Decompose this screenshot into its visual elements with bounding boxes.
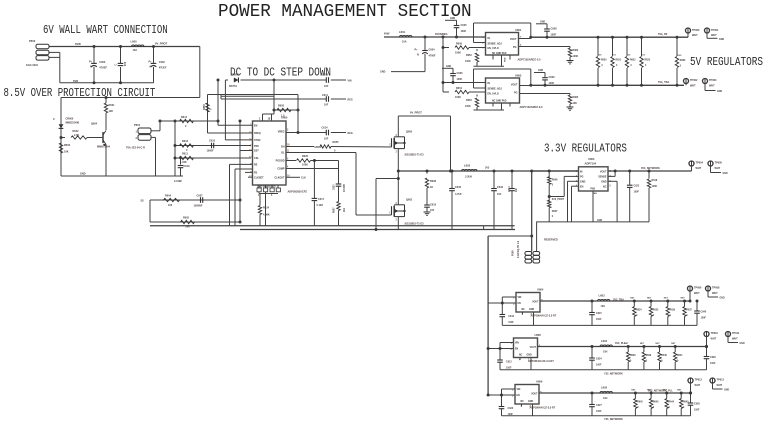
svg-text:10H: 10H — [603, 351, 608, 354]
svg-text:SI2318DS-T1-E3: SI2318DS-T1-E3 — [405, 223, 425, 226]
svg-text:10F: 10F — [324, 138, 329, 141]
svg-text:R682: R682 — [680, 60, 686, 62]
svg-text:ADP1864AUJZ-3.3-R7: ADP1864AUJZ-3.3-R7 — [530, 406, 556, 409]
svg-text:C611: C611 — [322, 94, 328, 97]
svg-text:WHT: WHT — [690, 85, 696, 88]
svg-text:3V3_TBA: 3V3_TBA — [613, 299, 624, 302]
svg-text:VIN: VIN — [517, 389, 521, 391]
svg-text:R614: R614 — [181, 116, 188, 119]
svg-text:POWER MANAGEMENT SECTION: POWER MANAGEMENT SECTION — [218, 2, 472, 22]
svg-text:5V1: 5V1 — [612, 55, 617, 57]
svg-text:WHT: WHT — [694, 292, 700, 295]
svg-text:R641: R641 — [677, 354, 683, 357]
svg-text:R643: R643 — [653, 401, 659, 404]
svg-text:Y33_NETWORK: Y33_NETWORK — [604, 418, 623, 421]
svg-text:10F: 10F — [497, 193, 502, 196]
svg-text:0: 0 — [670, 315, 672, 317]
svg-text:R601: R601 — [456, 87, 463, 90]
svg-text:C640: C640 — [701, 311, 707, 314]
svg-text:C606: C606 — [457, 72, 464, 75]
svg-text:C610: C610 — [184, 165, 191, 168]
svg-text:NET: NET — [640, 343, 645, 345]
svg-text:Y33_NETWORK: Y33_NETWORK — [604, 372, 623, 375]
svg-text:2: 2 — [136, 137, 138, 140]
svg-text:P601: P601 — [134, 123, 141, 127]
svg-text:C620: C620 — [508, 407, 514, 410]
svg-text:5VA_TBA: 5VA_TBA — [658, 81, 669, 84]
svg-text:TRK: TRK — [254, 145, 259, 148]
svg-text:VIN: VIN — [518, 297, 522, 299]
svg-text:100F: 100F — [710, 362, 716, 365]
svg-text:Q602: Q602 — [406, 199, 413, 202]
svg-text:C612: C612 — [506, 360, 512, 363]
svg-text:IN: IN — [488, 37, 491, 40]
svg-text:0: 0 — [683, 407, 685, 409]
svg-text:SYNC: SYNC — [254, 139, 261, 142]
svg-text:P+: P+ — [149, 60, 153, 63]
svg-text:100K: 100K — [455, 96, 461, 99]
svg-text:2: 2 — [396, 220, 398, 222]
svg-text:PAD: PAD — [504, 57, 507, 62]
svg-text:0: 0 — [653, 315, 655, 317]
svg-text:VIN: VIN — [515, 343, 519, 345]
svg-text:CSL: CSL — [254, 157, 259, 160]
svg-text:1000NF: 1000NF — [194, 205, 203, 208]
svg-text:0: 0 — [631, 65, 633, 67]
svg-text:VOUT: VOUT — [532, 302, 539, 304]
svg-text:CR600: CR600 — [66, 118, 74, 121]
svg-text:4700F: 4700F — [429, 55, 437, 58]
svg-text:U600: U600 — [281, 116, 288, 120]
svg-text:ADP1864AUJZ-3.3-R7: ADP1864AUJZ-3.3-R7 — [528, 360, 554, 363]
svg-text:GND: GND — [601, 181, 607, 184]
svg-text:0: 0 — [677, 361, 679, 363]
svg-text:ADP7104: ADP7104 — [585, 161, 597, 165]
svg-text:HDRV: HDRV — [315, 146, 322, 149]
svg-text:NC: NC — [521, 401, 525, 403]
svg-text:CLKSET: CLKSET — [254, 176, 264, 179]
svg-text:GND: GND — [719, 39, 724, 41]
svg-text:R616: R616 — [182, 140, 189, 143]
svg-text:C630: C630 — [455, 186, 462, 189]
svg-text:PG: PG — [580, 176, 584, 179]
svg-text:RESERVED: RESERVED — [544, 238, 558, 241]
svg-text:PAD: PAD — [591, 188, 596, 191]
svg-text:100F: 100F — [596, 364, 602, 367]
svg-text:100F: 100F — [457, 78, 463, 81]
svg-text:100K: 100K — [455, 52, 461, 55]
svg-text:ADP7102ARDZ-9.0: ADP7102ARDZ-9.0 — [520, 105, 543, 109]
svg-text:TP606: TP606 — [694, 287, 702, 290]
svg-text:C634: C634 — [508, 186, 511, 192]
svg-text:REG: REG — [348, 98, 353, 101]
svg-text:R631: R631 — [616, 60, 622, 62]
svg-text:COMP: COMP — [277, 168, 285, 171]
svg-text:R620: R620 — [302, 155, 309, 158]
svg-text:5V2: 5V2 — [627, 55, 632, 57]
svg-text:0: 0 — [637, 407, 639, 409]
svg-text:NET: NET — [631, 390, 636, 392]
svg-text:100F: 100F — [596, 410, 602, 413]
svg-text:R618: R618 — [652, 179, 658, 182]
svg-text:P+: P+ — [415, 49, 419, 52]
svg-text:C632: C632 — [497, 186, 504, 189]
svg-text:ADP7102ARDZ-5.0: ADP7102ARDZ-5.0 — [518, 58, 541, 62]
svg-text:FREQ: FREQ — [254, 132, 261, 135]
svg-text:C607: C607 — [197, 195, 204, 198]
svg-text:GND: GND — [80, 173, 86, 176]
svg-text:R650: R650 — [278, 105, 285, 108]
svg-text:L600: L600 — [131, 39, 138, 43]
svg-text:NET: NET — [671, 343, 676, 345]
svg-text:C628: C628 — [694, 403, 700, 406]
svg-text:0: 0 — [602, 65, 604, 67]
svg-text:100F: 100F — [701, 317, 707, 320]
svg-text:1000F: 1000F — [207, 150, 215, 153]
svg-text:C600: C600 — [99, 61, 106, 64]
svg-text:0.1EF: 0.1EF — [317, 204, 324, 207]
svg-text:3.3UH: 3.3UH — [465, 176, 472, 179]
svg-text:47UEF: 47UEF — [159, 66, 167, 69]
svg-text:DH: DH — [281, 146, 285, 149]
svg-text:NC: NC — [603, 185, 607, 188]
svg-text:5V0: 5V0 — [678, 55, 683, 57]
svg-text:U603: U603 — [588, 157, 595, 161]
svg-text:NET: NET — [630, 298, 635, 300]
svg-text:0: 0 — [636, 315, 638, 317]
svg-text:100K: 100K — [302, 164, 308, 167]
svg-text:EN: EN — [254, 125, 258, 128]
svg-text:DL: DL — [281, 152, 285, 155]
svg-text:0: 0 — [552, 215, 554, 218]
svg-text:R636: R636 — [670, 310, 676, 312]
svg-text:SS: SS — [141, 199, 145, 202]
svg-text:6V_PROT: 6V_PROT — [410, 111, 422, 115]
svg-text:NET: NET — [647, 298, 652, 300]
svg-text:R642: R642 — [637, 401, 643, 404]
svg-text:GND: GND — [717, 91, 722, 93]
svg-text:R605: R605 — [183, 217, 190, 220]
svg-text:VOUT: VOUT — [600, 171, 607, 174]
svg-text:10K: 10K — [573, 102, 578, 105]
svg-text:WHT: WHT — [712, 292, 718, 295]
svg-text:10F: 10F — [324, 85, 329, 88]
svg-text:N: N — [417, 54, 419, 57]
svg-text:100F: 100F — [506, 366, 512, 369]
svg-text:GND: GND — [540, 22, 545, 24]
svg-text:C603: C603 — [322, 74, 329, 77]
svg-text:6V_PROT: 6V_PROT — [155, 41, 168, 45]
svg-text:FB: FB — [254, 172, 257, 175]
svg-text:R683: R683 — [573, 96, 579, 99]
svg-text:NC GND PAD: NC GND PAD — [492, 52, 507, 55]
svg-text:WHT: WHT — [715, 167, 721, 170]
svg-text:NC: NC — [519, 355, 523, 357]
svg-text:C626: C626 — [710, 356, 716, 359]
svg-text:R640: R640 — [661, 354, 667, 357]
svg-text:PG: PG — [513, 46, 517, 49]
svg-text:R652: R652 — [466, 54, 472, 57]
svg-text:WHT: WHT — [732, 338, 738, 341]
svg-text:TP601: TP601 — [711, 29, 719, 32]
svg-text:R638: R638 — [630, 355, 636, 357]
svg-text:TP612: TP612 — [695, 379, 703, 382]
svg-text:C602: C602 — [159, 61, 166, 64]
svg-text:C605: C605 — [461, 24, 468, 27]
svg-text:2: 2 — [396, 152, 398, 154]
svg-text:R637: R637 — [686, 310, 692, 312]
svg-text:L601: L601 — [399, 30, 406, 34]
svg-text:GND: GND — [529, 309, 534, 311]
svg-text:C604: C604 — [429, 49, 436, 52]
svg-text:R602: R602 — [73, 130, 80, 133]
svg-text:10F: 10F — [324, 104, 329, 107]
svg-text:R632: R632 — [630, 60, 636, 62]
svg-text:KLD-1601: KLD-1601 — [26, 63, 39, 67]
svg-text:6V8: 6V8 — [125, 61, 127, 66]
svg-text:100F: 100F — [551, 34, 557, 37]
svg-text:N: N — [150, 66, 152, 69]
svg-text:3V3_NETWORK: 3V3_NETWORK — [641, 167, 660, 170]
svg-text:5VA_RF: 5VA_RF — [658, 33, 668, 36]
svg-text:5: 5 — [610, 186, 612, 188]
svg-text:NET: NET — [624, 343, 629, 345]
svg-text:5V0: 5V0 — [598, 55, 603, 57]
svg-text:C624: C624 — [596, 358, 602, 361]
svg-text:0: 0 — [653, 407, 655, 409]
svg-text:CR602: CR602 — [231, 74, 239, 77]
svg-text:EN: EN — [518, 303, 522, 305]
svg-text:EN: EN — [517, 395, 521, 397]
svg-text:TP605: TP605 — [715, 162, 723, 165]
svg-text:GND: GND — [740, 343, 745, 345]
svg-text:100F: 100F — [508, 321, 514, 324]
svg-text:6VW: 6VW — [75, 42, 81, 46]
svg-text:U604: U604 — [537, 288, 544, 292]
svg-text:Q604: Q604 — [91, 123, 98, 126]
svg-text:10A: 10A — [133, 49, 138, 52]
svg-text:1.04K: 1.04K — [180, 161, 187, 164]
svg-text:100F: 100F — [634, 191, 640, 194]
svg-text:C617: C617 — [318, 198, 325, 201]
svg-text:SST: SST — [254, 150, 259, 153]
svg-text:240: 240 — [186, 226, 191, 229]
svg-text:R650: R650 — [203, 104, 206, 110]
svg-text:100F: 100F — [694, 409, 700, 412]
svg-text:100K: 100K — [465, 105, 471, 108]
svg-text:100: 100 — [168, 204, 173, 207]
svg-text:10H: 10H — [603, 397, 608, 400]
svg-text:10K: 10K — [64, 151, 69, 154]
svg-text:NET: NET — [647, 390, 652, 392]
svg-text:IN: IN — [580, 171, 583, 174]
svg-text:R607: R607 — [552, 210, 558, 213]
svg-text:GND: GND — [580, 181, 586, 184]
svg-text:C622: C622 — [634, 185, 640, 188]
svg-text:R653: R653 — [466, 99, 472, 102]
svg-text:WHT: WHT — [709, 85, 715, 88]
svg-text:R635: R635 — [653, 310, 659, 312]
svg-text:RE: RE — [254, 164, 258, 167]
svg-text:GND: GND — [724, 390, 729, 392]
svg-text:NC: NC — [522, 309, 526, 311]
svg-text:6: 6 — [271, 195, 273, 197]
svg-text:2K4: 2K4 — [343, 207, 346, 212]
svg-text:GND: GND — [723, 173, 728, 175]
svg-text:NET: NET — [681, 298, 686, 300]
svg-text:VOUT: VOUT — [510, 38, 517, 41]
svg-text:C616: C616 — [209, 140, 216, 143]
svg-text:GND: GND — [597, 220, 602, 222]
svg-text:TP610: TP610 — [711, 332, 719, 335]
svg-text:EN_UVLO: EN_UVLO — [488, 47, 499, 50]
svg-text:100F: 100F — [461, 30, 467, 33]
svg-text:MMBT3904: MMBT3904 — [97, 146, 111, 149]
svg-text:VOUT: VOUT — [511, 84, 518, 87]
svg-text:VOUT: VOUT — [530, 347, 537, 349]
svg-text:VOUT: VOUT — [531, 394, 538, 396]
svg-text:3V3_PROT: 3V3_PROT — [552, 198, 565, 201]
svg-text:C618: C618 — [430, 204, 437, 207]
svg-text:BAT54: BAT54 — [229, 85, 237, 88]
svg-text:Q600: Q600 — [406, 131, 413, 134]
svg-text:2: 2 — [259, 118, 261, 121]
svg-text:N: N — [90, 66, 92, 69]
svg-text:100K: 100K — [465, 60, 471, 63]
svg-text:SENSE_ADJ: SENSE_ADJ — [488, 42, 503, 45]
svg-text:P+: P+ — [89, 60, 93, 63]
svg-text:6VUNREG: 6VUNREG — [435, 32, 448, 36]
svg-text:MMBZ5240B: MMBZ5240B — [66, 122, 80, 125]
svg-text:NET: NET — [656, 343, 661, 345]
svg-text:0: 0 — [669, 407, 671, 409]
svg-text:WHT: WHT — [696, 167, 702, 170]
svg-text:3: 3 — [287, 130, 289, 132]
svg-text:DC TO DC STEP DOWN: DC TO DC STEP DOWN — [230, 67, 331, 80]
svg-text:GND: GND — [538, 70, 543, 72]
svg-text:R600: R600 — [456, 43, 463, 46]
svg-text:R633: R633 — [645, 60, 651, 62]
svg-text:0: 0 — [680, 66, 682, 68]
svg-text:ADP1864AUJZ-3.3-R7: ADP1864AUJZ-3.3-R7 — [531, 314, 557, 317]
svg-text:4.7UF: 4.7UF — [455, 193, 462, 196]
svg-text:PG: PG — [514, 92, 518, 95]
svg-text:13: 13 — [249, 157, 252, 159]
svg-text:SENSE_ADJ: SENSE_ADJ — [488, 88, 503, 91]
svg-text:R611: R611 — [182, 153, 188, 156]
svg-text:U606: U606 — [536, 380, 543, 384]
svg-text:REG: REG — [348, 132, 353, 135]
svg-text:GND: GND — [450, 18, 455, 20]
svg-text:6VR: 6VR — [73, 79, 78, 83]
svg-text:3V3: 3V3 — [485, 167, 490, 170]
svg-text:GND: GND — [528, 401, 533, 403]
svg-text:1K: 1K — [430, 186, 433, 189]
svg-text:5V REGULATORS: 5V REGULATORS — [690, 56, 763, 69]
svg-text:10H: 10H — [601, 305, 606, 308]
svg-text:R601: R601 — [109, 104, 116, 107]
svg-text:SENSE: SENSE — [598, 176, 607, 179]
svg-text:R624: R624 — [263, 207, 270, 210]
svg-text:WHT: WHT — [711, 34, 717, 37]
svg-text:EN_UVLO: EN_UVLO — [488, 93, 499, 96]
svg-text:C627: C627 — [596, 404, 602, 407]
svg-text:0: 0 — [185, 125, 187, 128]
svg-text:100K: 100K — [652, 185, 658, 188]
svg-text:TP602: TP602 — [690, 79, 698, 82]
svg-text:IN: IN — [488, 82, 491, 85]
svg-text:C620: C620 — [334, 184, 336, 190]
svg-text:R682: R682 — [573, 49, 579, 52]
svg-text:L604: L604 — [601, 339, 608, 343]
svg-text:1: 1 — [389, 213, 391, 215]
svg-text:6V WALL WART CONNECTION: 6V WALL WART CONNECTION — [43, 24, 168, 38]
svg-text:NET: NET — [664, 298, 669, 300]
svg-text:P600: P600 — [29, 39, 36, 43]
svg-text:ADP1N283ACPZ: ADP1N283ACPZ — [288, 190, 308, 193]
svg-text:TP608: TP608 — [712, 287, 720, 290]
svg-text:GND: GND — [527, 355, 532, 357]
svg-text:10K: 10K — [109, 110, 114, 113]
svg-text:C614: C614 — [322, 127, 329, 130]
svg-text:100F: 100F — [549, 82, 555, 85]
svg-text:R634: R634 — [636, 309, 642, 312]
svg-text:47UEF: 47UEF — [99, 66, 107, 69]
svg-text:VREG: VREG — [278, 131, 285, 134]
svg-text:R639: R639 — [646, 355, 652, 357]
svg-text:TP603: TP603 — [709, 79, 717, 82]
svg-text:1: 1 — [136, 131, 138, 134]
svg-text:10F: 10F — [516, 187, 518, 192]
svg-text:C608: C608 — [551, 28, 558, 31]
svg-text:0: 0 — [630, 361, 632, 363]
svg-text:8.5V OVER PROTECTION CIRCUIT: 8.5V OVER PROTECTION CIRCUIT — [4, 87, 156, 101]
svg-text:R603: R603 — [64, 144, 71, 147]
svg-text:100F: 100F — [596, 318, 602, 321]
svg-text:VIN: VIN — [348, 79, 352, 82]
svg-text:100K: 100K — [573, 55, 579, 58]
svg-text:3.3V REGULATORS: 3.3V REGULATORS — [544, 143, 627, 156]
svg-text:NC GND PAD: NC GND PAD — [492, 100, 507, 103]
svg-text:2.4A KQ-7D 1.6: 2.4A KQ-7D 1.6 — [517, 240, 520, 258]
svg-text:5V3: 5V3 — [641, 55, 646, 57]
svg-text:0: 0 — [645, 65, 647, 67]
svg-text:6VW: 6VW — [384, 33, 390, 36]
svg-text:T8A-1E2-04-C-R: T8A-1E2-04-C-R — [126, 147, 145, 150]
svg-text:C609: C609 — [549, 76, 556, 79]
svg-text:R644: R644 — [669, 401, 675, 404]
svg-text:WHT: WHT — [717, 384, 723, 387]
svg-text:C615: C615 — [596, 312, 602, 315]
svg-text:TP611: TP611 — [732, 332, 740, 335]
svg-text:WHT: WHT — [692, 34, 698, 37]
svg-text:C: C — [116, 64, 118, 66]
svg-text:CLKOUT: CLKOUT — [275, 177, 285, 180]
svg-text:1: 1 — [389, 145, 391, 147]
svg-text:U601: U601 — [515, 28, 522, 32]
svg-text:0: 0 — [552, 184, 554, 187]
svg-text:0: 0 — [646, 361, 648, 363]
svg-text:0: 0 — [661, 361, 663, 363]
svg-text:0.01EF: 0.01EF — [174, 180, 183, 183]
svg-text:NET: NET — [663, 390, 668, 392]
svg-text:NET: NET — [677, 390, 682, 392]
svg-text:GND: GND — [720, 298, 725, 300]
svg-text:L603: L603 — [599, 294, 606, 298]
svg-text:EN: EN — [515, 349, 519, 351]
svg-text:2.6K: 2.6K — [74, 134, 79, 137]
svg-text:C: C — [53, 118, 55, 121]
